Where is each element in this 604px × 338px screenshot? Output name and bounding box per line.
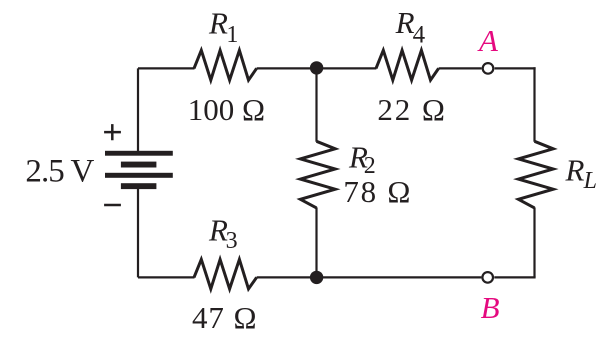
wire: battery negative lead down to bottom-left corner: [137, 189, 139, 278]
junction node bottom (R3/R2/B rail): [310, 271, 323, 284]
svg-text:B: B: [481, 290, 500, 325]
wire: middle branch, top junction down to R2: [315, 68, 317, 142]
svg-text:4: 4: [413, 21, 426, 48]
label R4: [395, 5, 426, 48]
wire: top rail, R1 to top junction: [257, 67, 317, 69]
wire: top rail, R4 to node A: [439, 67, 482, 69]
wire: middle branch, R2 down to bottom junction: [315, 207, 317, 277]
terminal node A open circle: [483, 63, 494, 74]
svg-text:100 Ω: 100 Ω: [188, 92, 265, 127]
svg-text:A: A: [477, 23, 499, 58]
resistor R1 zigzag: [194, 50, 257, 80]
svg-text:R: R: [565, 152, 585, 187]
wire: bottom rail, R3 through bottom junction to node B: [257, 276, 482, 278]
junction node top (R1/R2/R4): [310, 61, 323, 74]
svg-text:3: 3: [226, 228, 238, 254]
resistor R2 zigzag: [300, 141, 335, 208]
battery plus polarity mark: [104, 124, 121, 140]
wire: bottom rail, left corner to R3: [138, 276, 195, 278]
wire: right branch, RL down to bottom-right corner: [533, 207, 535, 277]
label R1: [208, 6, 238, 49]
wire: node B to bottom-right corner: [494, 276, 535, 278]
resistor R3 zigzag: [194, 259, 257, 289]
svg-text:22 Ω: 22 Ω: [377, 92, 445, 127]
label R2: [348, 139, 376, 179]
label RL (load resistor): [565, 152, 597, 194]
terminal node B open circle: [482, 272, 493, 283]
svg-text:78 Ω: 78 Ω: [343, 174, 410, 209]
svg-text:R: R: [208, 6, 228, 41]
resistor RL zigzag: [518, 141, 553, 208]
battery minus polarity mark: [104, 204, 121, 207]
battery VS 2.5 V plates: [105, 151, 173, 189]
svg-text:R: R: [395, 5, 415, 40]
label R3: [208, 213, 238, 255]
wire: battery positive lead up to top-left corner: [137, 68, 139, 152]
wire: right branch, corner down to RL: [533, 67, 535, 142]
wire: node A to top-right corner: [495, 67, 536, 69]
svg-text:L: L: [583, 168, 597, 194]
wire: top rail, left corner to R1: [138, 67, 195, 69]
wire: top rail, top junction to R4: [317, 67, 377, 69]
svg-text:2.5 V: 2.5 V: [25, 154, 94, 190]
svg-text:47 Ω: 47 Ω: [192, 300, 257, 335]
svg-text:1: 1: [226, 22, 238, 48]
resistor R4 zigzag: [376, 50, 439, 80]
